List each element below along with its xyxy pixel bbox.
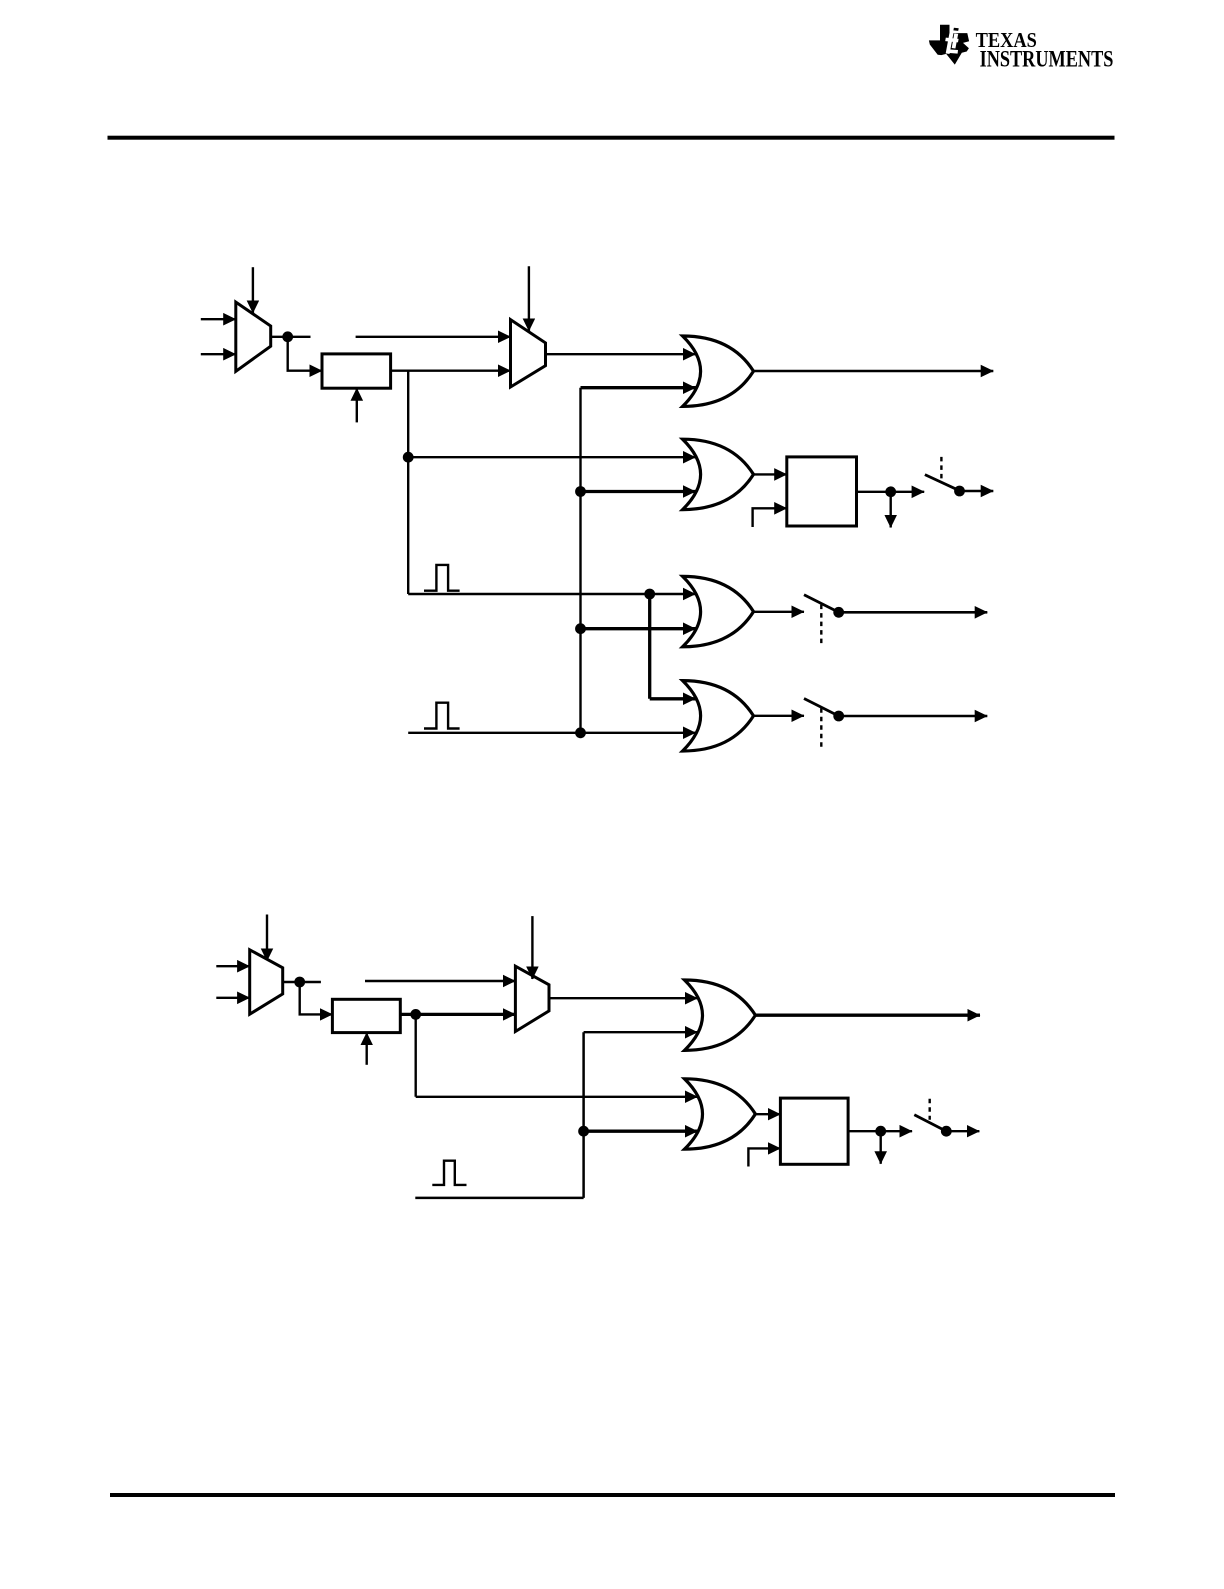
wire pulse input to vertical [415,1197,583,1200]
junction dot on branch at OR2 input [403,452,414,463]
switch SW3 control dashed line [820,708,822,750]
wire switch SW3 output arrow [839,715,988,717]
or-gate G6 [685,1079,756,1149]
junction dot at mux U4 output [294,977,305,988]
wire vertical bus [579,388,581,733]
wire register REG2 output to mux U5 [400,1013,515,1016]
mux U1 data input arrow A [201,318,236,320]
switch SW1 blade [925,475,960,491]
mux U2 select input arrow [528,266,530,331]
wire OR gate G3 top input [408,593,695,595]
latch U6 [780,1098,848,1164]
register REG1 clock input arrow [356,388,358,422]
or-gate G4 [683,681,754,751]
junction dot bus meets pulse wire [575,727,586,738]
wire switch SW1 output arrow [960,490,994,492]
or-gate G1 [683,336,754,406]
wire mux U1 output to register REG1 [288,337,322,371]
wire OR gate G2 bottom input [581,490,696,493]
junction dot on bus at G3 input [575,623,586,634]
wire OR gate G4 output arrow [754,715,805,717]
wire latch U6 output [848,1130,912,1132]
wire OR gate G6 bottom input [584,1130,698,1133]
mux U1 data input arrow B [201,353,236,355]
switch SW2 blade [804,595,839,613]
mux U5 select input arrow [531,916,533,979]
junction dot at latch U3 output [885,486,896,497]
wire mux U4 output stub [283,981,321,983]
or-gate G5 [685,980,756,1050]
wire switch SW4 output arrow [946,1130,979,1132]
mux U5 [515,966,549,1031]
mux U4 data input arrow A [216,965,249,967]
wire OR gate G4 bottom input [408,732,695,734]
junction dot at mux U1 output [282,331,293,342]
TI logo wordmark TEXAS INSTRUMENTS [976,29,1114,73]
wire vertical from G5 input to pulse wire [582,1032,585,1198]
wire OR gate G4 top input [650,697,696,700]
wire mux U4 output to register REG2 [300,982,333,1014]
wire register REG1 output to mux U2 [391,370,511,372]
register REG1 [322,354,391,388]
mux U2 [511,320,546,387]
wire to mux U5 top input [365,980,515,982]
register REG2 clock input arrow [366,1033,368,1065]
junction dot feeding G4 top input [644,589,655,600]
header rule [108,136,1115,140]
switch SW2 control dashed line [820,605,822,648]
switch SW4 contact dot [941,1126,952,1137]
wire OR gate G5 bottom input [584,1031,698,1033]
wire mux U1 output stub [271,336,311,338]
mux U4 data input arrow B [216,997,249,999]
switch SW1 contact dot [954,486,965,497]
footer rule [110,1493,1115,1497]
wire OR gate G1 bottom input [581,386,696,389]
junction dot at G6 bottom input [578,1126,589,1137]
wire OR gate G3 output arrow [754,611,805,613]
wire vertical branch from REG2 output [415,1014,417,1096]
switch SW3 blade [804,699,839,717]
or-gate G2 [683,439,754,509]
wire mux U2 output to OR gate G1 [546,353,696,355]
mux U1 select input arrow [252,267,254,313]
junction dot at REG2 output [410,1009,421,1020]
wire vertical to OR gate G4 top input [648,594,651,699]
arrow down from latch U6 output node [880,1131,882,1164]
or-gate G3 [683,576,754,646]
latch U3 clock edge input [753,508,787,527]
wire latch U3 output [857,491,925,493]
wire switch SW2 output arrow [839,611,988,614]
arrow down from latch U3 output node [890,492,892,528]
pulse symbol P1 [424,565,460,591]
wire to mux U2 top input [356,336,511,338]
latch U3 [787,457,857,526]
wire mux U5 output to OR gate G5 [549,997,698,999]
register REG2 [332,999,400,1032]
wire vertical branch from REG1 output [407,371,409,594]
switch SW4 control dashed line [929,1099,931,1120]
wire OR gate G1 output arrow [754,370,994,372]
pulse symbol P3 [432,1161,466,1185]
switch SW1 control dashed line [940,457,942,479]
wire OR gate G3 bottom input [581,627,696,630]
switch SW2 contact dot [833,607,844,618]
wire OR gate G6 top input [416,1096,698,1098]
mux U4 select input arrow [266,915,268,962]
wire OR gate G2 output to latch U3 [754,473,787,475]
wire OR gate G5 output arrow [755,1014,980,1017]
junction dot at latch U6 output [875,1126,886,1137]
TI logo Texas map emblem [929,25,969,65]
svg-text:INSTRUMENTS: INSTRUMENTS [980,47,1114,73]
wire OR gate G6 output to latch U6 [755,1113,780,1115]
mux U4 [250,950,283,1014]
mux U1 [236,302,271,371]
latch U6 clock edge input [748,1148,780,1166]
junction dot on bus at G2 input [575,486,586,497]
switch SW3 contact dot [833,711,844,722]
switch SW4 blade [914,1115,946,1131]
wire OR gate G2 top input [408,456,695,458]
pulse symbol P2 [424,703,460,729]
